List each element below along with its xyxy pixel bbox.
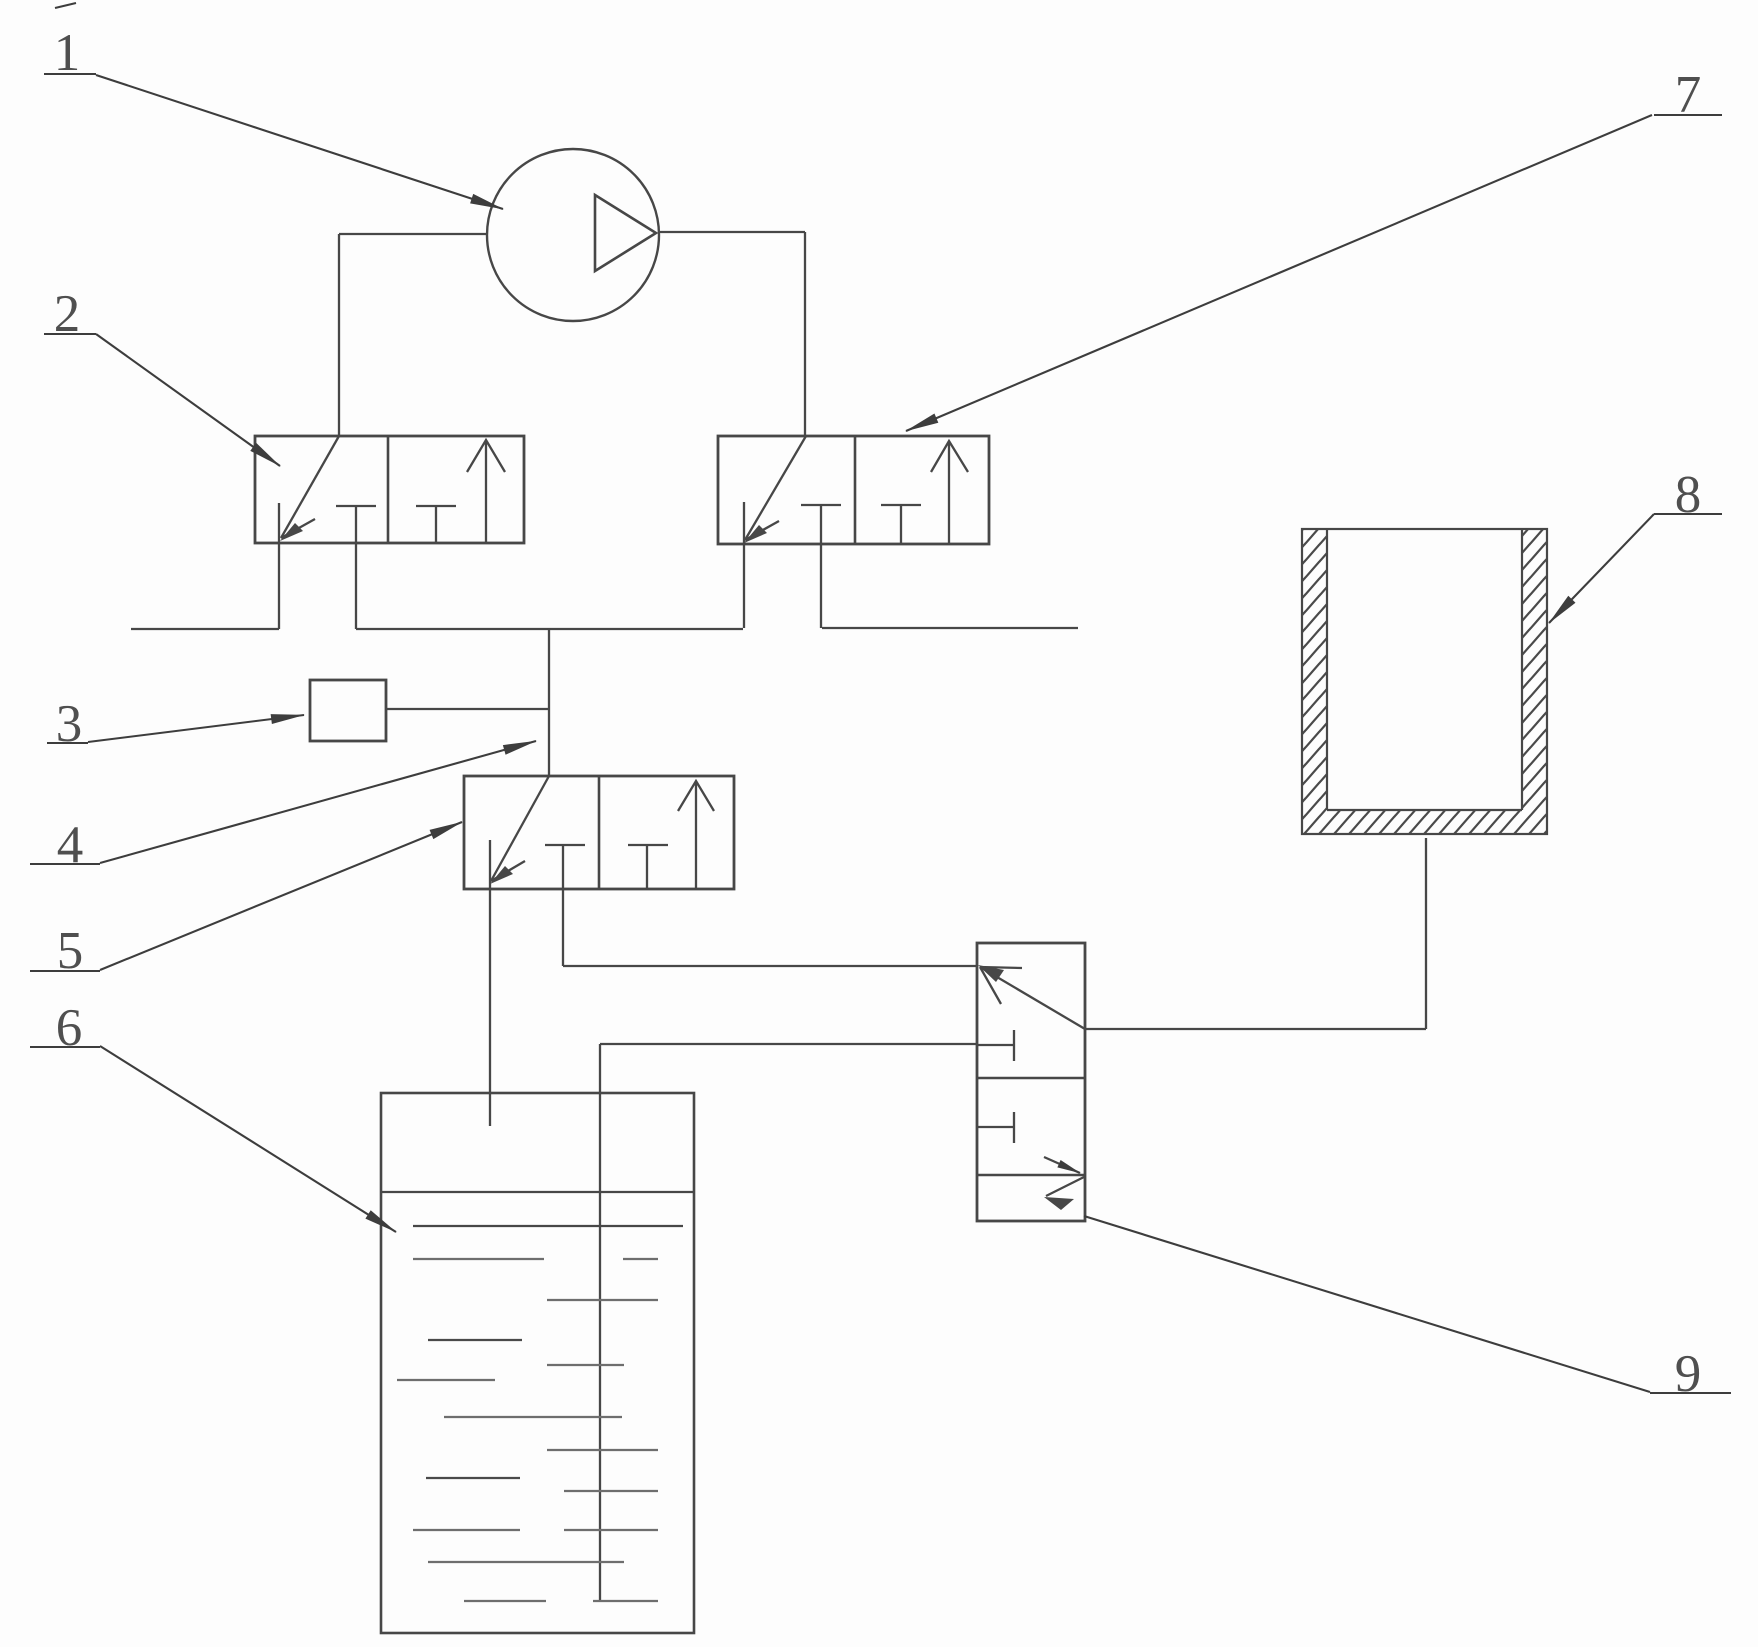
valve V9 body — [977, 943, 1085, 1221]
label 2 leader — [96, 334, 280, 466]
valve V7 body — [718, 436, 989, 544]
label 1 underline — [44, 73, 96, 75]
valve V7 left port wire — [743, 502, 745, 628]
svg-text:6: 6 — [56, 999, 83, 1057]
label 9 underline — [1650, 1392, 1731, 1394]
valve V7 up arrow — [931, 441, 968, 544]
valve V9 bottom cell arrow — [1046, 1177, 1084, 1196]
valve V5 up arrow — [678, 781, 714, 889]
label 4 leader — [100, 741, 536, 863]
wire middle rail — [356, 628, 743, 630]
tank 6 liquid surface line — [381, 1191, 694, 1193]
svg-text:3: 3 — [56, 695, 83, 753]
valve V9 blocked port T upper — [977, 1030, 1014, 1061]
label 3 leader — [88, 715, 304, 742]
wire square to center node — [386, 708, 549, 710]
valve V2 divider — [387, 436, 390, 543]
valve V2 up arrow — [467, 440, 505, 543]
valve V5 left port wire into tank — [489, 840, 491, 1126]
container 8 inner walls — [1327, 529, 1522, 810]
pump 1 circle — [487, 149, 659, 321]
wire pump inlet vertical — [338, 234, 340, 436]
svg-text:2: 2 — [54, 285, 81, 343]
label 8 underline — [1654, 513, 1722, 515]
wire pump outlet vertical — [804, 232, 806, 436]
valve V9 diagonal arrowhead barbs — [980, 967, 1022, 1004]
valve V5 diagonal arrowhead — [491, 861, 525, 881]
tank 6 liquid surface line inner — [413, 1225, 683, 1227]
wire tank standpipe — [599, 1044, 601, 1601]
label 5 underline — [30, 970, 100, 972]
valve V2 flow diagonal — [281, 436, 339, 538]
svg-text:8: 8 — [1675, 466, 1702, 524]
valve V5 blocked port T left — [545, 845, 585, 966]
valve V5 divider — [598, 776, 601, 889]
svg-text:9: 9 — [1675, 1345, 1702, 1403]
label 7 leader — [906, 115, 1652, 431]
wire pump outlet horizontal — [658, 231, 805, 233]
tank 6 liquid dashes — [397, 1259, 658, 1601]
label 2 underline — [44, 333, 96, 335]
valve V9 flow diagonal — [980, 967, 1085, 1029]
valve V5 flow diagonal — [491, 776, 549, 881]
label 9 leader — [1084, 1216, 1650, 1392]
wire left rail — [131, 628, 279, 630]
wire tank to valve V9 lower — [600, 1043, 977, 1045]
component 3 square — [310, 680, 386, 741]
valve V7 flow diagonal — [745, 436, 806, 540]
valve V7 blocked port T right cell — [881, 505, 921, 544]
svg-text:7: 7 — [1675, 66, 1702, 124]
label 5 leader — [100, 822, 462, 970]
svg-text:1: 1 — [54, 24, 81, 82]
valve V2 blocked port T right cell — [416, 506, 456, 543]
label 7 underline — [1654, 114, 1722, 116]
valve V9 middle cell arrow — [1044, 1157, 1080, 1173]
valve V2 body — [255, 436, 524, 543]
valve V2 blocked port T left — [336, 506, 376, 629]
label 8 leader — [1549, 514, 1654, 623]
label 6 underline — [30, 1046, 100, 1048]
stray mark top left — [55, 3, 76, 8]
valve V9 divider lower — [977, 1174, 1085, 1177]
wire container downpipe — [1425, 838, 1427, 1029]
valve V9 divider upper — [977, 1077, 1085, 1080]
label 1 leader — [96, 75, 503, 209]
valve V5 body — [464, 776, 734, 889]
wire valve V5 to valve V9 upper — [563, 965, 977, 967]
valve V7 divider — [854, 436, 857, 544]
container 8 outer rect — [1302, 529, 1547, 834]
valve V7 diagonal arrowhead — [745, 521, 779, 540]
svg-text:4: 4 — [57, 816, 84, 874]
valve V2 diagonal arrowhead — [281, 519, 315, 538]
wire center down stub — [548, 628, 550, 776]
valve V2 left port wire — [278, 503, 280, 629]
label 4 underline — [30, 863, 100, 865]
container 8 walls hatched — [1302, 529, 1327, 834]
pump 1 triangle — [595, 195, 656, 271]
valve V9 blocked port T middle — [977, 1112, 1014, 1143]
wire pump inlet horizontal — [339, 233, 487, 235]
label 6 leader — [100, 1046, 396, 1232]
valve V7 blocked port T left — [801, 505, 841, 628]
valve V5 blocked port T right cell — [628, 845, 668, 889]
label 3 underline — [47, 742, 88, 744]
wire valve V9 out to container — [1085, 1028, 1426, 1030]
svg-text:5: 5 — [57, 922, 84, 980]
wire right rail — [822, 627, 1078, 629]
tank 6 body — [381, 1093, 694, 1633]
